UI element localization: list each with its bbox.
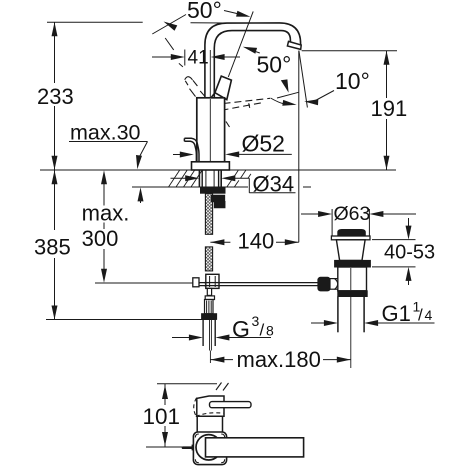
deck hatch right (233, 170, 238, 178)
dashed handle pulled position lower edge (222, 102, 265, 110)
top view spout (206, 438, 304, 457)
svg-text:101: 101 (143, 404, 181, 429)
dim 140 (210, 239, 224, 245)
top view base plate (193, 432, 226, 465)
swing marks (216, 383, 222, 391)
bottom view 101 top ref line (157, 383, 217, 385)
dim max.180 (210, 357, 224, 363)
waste upper body taper (336, 240, 365, 261)
dim 40-53 arrows (408, 218, 410, 229)
dim 41 extension line (184, 50, 186, 66)
shank tube (201, 170, 203, 188)
faucet body (197, 98, 225, 162)
top view body circle (196, 435, 221, 460)
connector neck (207, 288, 211, 295)
svg-text:Ø34: Ø34 (253, 172, 295, 197)
outlet vertical reference line (298, 51, 300, 242)
dashed handle left cap dashes (222, 113, 225, 120)
opening angle line (277, 92, 299, 98)
spout outer contour (205, 23, 301, 98)
G3/8 arrows (172, 337, 192, 339)
G1 1/4 arrows (311, 322, 327, 324)
side tube outer (184, 138, 199, 161)
dim max.300 vertical line (103, 175, 105, 206)
40-53 reference lines (372, 239, 416, 241)
hose elbow fitting (212, 195, 225, 201)
dia 34 arrows (171, 177, 189, 179)
svg-text:max.: max. (82, 201, 130, 226)
top view lever bar (210, 402, 252, 408)
hose tee block (206, 274, 219, 288)
svg-text:300: 300 (82, 226, 119, 251)
dashed handle small connector (249, 103, 250, 108)
dim 233 top reference line (47, 21, 143, 23)
dashed swivel arc across (196, 413, 224, 417)
waste flange (331, 236, 370, 240)
dim 385 vertical line (54, 170, 56, 230)
waste locknut (335, 260, 371, 267)
body flange (192, 162, 230, 170)
svg-text:3: 3 (252, 313, 260, 329)
pop-up rod (199, 282, 318, 284)
flexible hose lower segment (205, 247, 212, 271)
svg-text:50°: 50° (257, 52, 292, 78)
svg-text:/: / (260, 321, 265, 340)
svg-text:Ø52: Ø52 (242, 131, 285, 157)
mounting hole edges (198, 170, 200, 187)
spout inner contour (214, 31, 290, 98)
top view rod stub (183, 446, 192, 449)
191 top reference line (302, 50, 397, 52)
top view body sides (196, 416, 198, 432)
connector top (205, 296, 214, 300)
svg-text:140: 140 (238, 229, 275, 254)
svg-text:40-53: 40-53 (384, 242, 435, 264)
top view base plate inner corners (195, 434, 199, 438)
opening angle arrow upper (281, 79, 289, 92)
max.300 bottom reference line (95, 282, 200, 284)
rod end piece (193, 278, 199, 287)
waste body (338, 267, 367, 291)
svg-text:191: 191 (371, 96, 408, 121)
max.30 lower arrow (140, 194, 142, 204)
svg-text:8: 8 (266, 323, 274, 339)
50deg upper right leader (224, 11, 247, 16)
open handle axis line (165, 38, 174, 50)
waste centre line (350, 268, 352, 290)
top view handle block (197, 396, 224, 416)
countertop top line (40, 169, 396, 171)
dim 101 vertical line (164, 384, 166, 405)
10deg leader (315, 91, 335, 102)
G3/8 thread tube (202, 319, 204, 346)
connector body (205, 300, 214, 314)
dim 191 vertical line (386, 51, 388, 98)
shank locknut (201, 188, 226, 193)
open handle dashed sides (185, 81, 188, 85)
50deg upper left leader (152, 15, 186, 35)
dim dia52 arrows (173, 154, 183, 156)
countertop bottom line (132, 186, 248, 188)
body centre line (209, 99, 211, 162)
svg-text:10°: 10° (335, 68, 370, 94)
svg-text:max.180: max.180 (237, 347, 321, 372)
open handle dashed cap (185, 77, 193, 80)
handle axis line (228, 11, 253, 77)
knob connector (330, 279, 338, 290)
knob ball joint (335, 279, 338, 290)
bottom view 101 bottom ref line (146, 446, 186, 448)
dia63 extension lines (331, 209, 333, 236)
svg-text:50°: 50° (187, 0, 222, 23)
rod knob (318, 277, 330, 290)
svg-text:233: 233 (37, 84, 74, 109)
233 ref line right segment (191, 22, 227, 24)
spout outlet end (287, 41, 301, 49)
connector nut (202, 314, 217, 320)
svg-text:4: 4 (425, 307, 433, 323)
riser centre line (209, 50, 211, 162)
10deg slanted line (299, 51, 308, 108)
svg-text:41: 41 (188, 48, 209, 69)
waste tailpipe (337, 297, 339, 333)
svg-text:G: G (232, 316, 250, 342)
deck hatch left (169, 170, 180, 187)
waste plug cap (338, 230, 365, 236)
svg-text:385: 385 (34, 235, 71, 260)
svg-text:max.30: max.30 (70, 121, 141, 145)
385 bottom reference line (46, 319, 216, 321)
dia 34 leader/underline (248, 178, 250, 193)
svg-text:Ø63: Ø63 (334, 203, 371, 225)
lever handle (215, 76, 232, 100)
flexible hose upper segment (205, 193, 212, 234)
50deg lower leader (248, 49, 260, 53)
dim 41 arrows (152, 56, 174, 58)
svg-text:/: / (418, 306, 423, 325)
waste washer (338, 291, 367, 297)
svg-text:G1: G1 (382, 301, 411, 326)
max.30 underline + leader (69, 141, 148, 143)
opening angle arc + arrow (271, 98, 285, 104)
pop-up rod over block (204, 282, 220, 284)
dim 233 vertical line (54, 22, 56, 83)
side tube inner (184, 141, 196, 161)
dia63 arrows (301, 213, 322, 215)
dashed handle pulled position upper edge (224, 98, 271, 103)
dashed swivel arc left (194, 398, 197, 416)
